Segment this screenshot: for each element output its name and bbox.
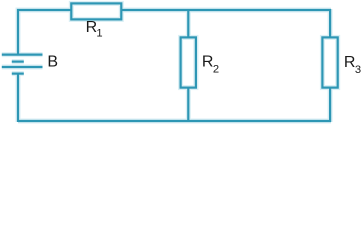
wire: bottom side bbox=[18, 120, 331, 122]
svg-text:1: 1 bbox=[96, 27, 102, 39]
resistor R3 (box) bbox=[322, 37, 337, 87]
label R2 bbox=[202, 54, 219, 76]
wire glow underlay (soft halo for all conductors) bbox=[2, 3, 338, 122]
svg-text:B: B bbox=[47, 54, 58, 71]
wire: R2 bottom branch bbox=[187, 87, 189, 121]
wire: right side bottom, R3 to corner bbox=[329, 87, 331, 122]
resistor R2 (box) bbox=[181, 37, 196, 87]
svg-text:2: 2 bbox=[213, 63, 219, 75]
wire: left side top, battery to top-left corner to R1 bbox=[18, 10, 71, 55]
wire: top side, R1 to node to top-right corner bbox=[121, 9, 331, 11]
wire: left side below battery bbox=[17, 74, 19, 123]
battery B: long plate (top cell, positive) bbox=[2, 53, 43, 55]
svg-text:R: R bbox=[202, 54, 214, 71]
label R1 bbox=[86, 19, 103, 39]
battery B: short plate (top cell, negative) bbox=[12, 60, 24, 62]
label R3 bbox=[344, 54, 361, 76]
battery B: long plate (bottom cell, positive) bbox=[2, 66, 43, 68]
wire: right side top, corner to R3 bbox=[329, 9, 331, 38]
svg-text:R: R bbox=[344, 54, 356, 71]
svg-text:3: 3 bbox=[355, 64, 361, 76]
wire: R2 top branch bbox=[187, 10, 189, 38]
resistor R1 (box) bbox=[71, 3, 121, 19]
battery B: short plate (bottom cell, negative) bbox=[12, 72, 24, 74]
